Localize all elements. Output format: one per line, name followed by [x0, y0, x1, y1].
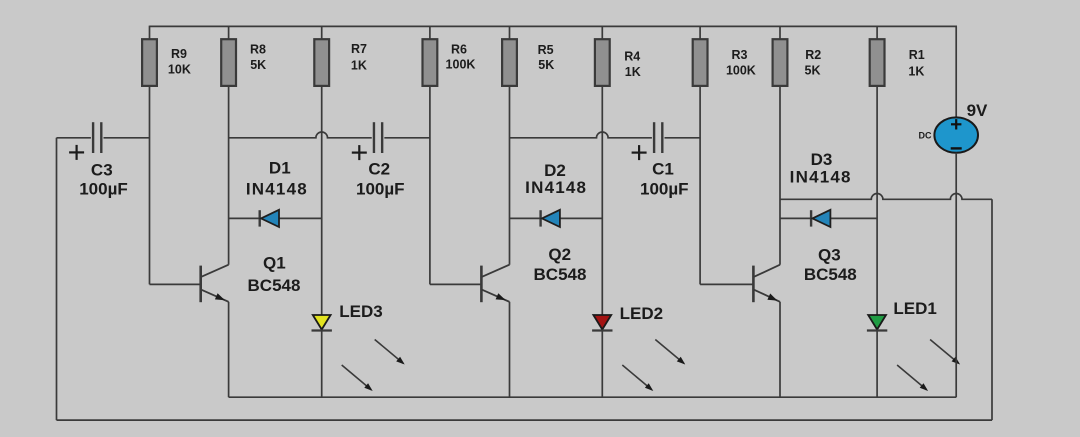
svg-text:Q3: Q3: [818, 246, 841, 265]
resistor R5 (5K): [502, 26, 554, 86]
wire: R1 branch down to LED1: [876, 86, 878, 397]
svg-text:R7: R7: [351, 42, 367, 56]
svg-text:R3: R3: [732, 48, 748, 62]
svg-text:10K: 10K: [168, 62, 191, 76]
wire: right riser down to bottom rail: [991, 199, 993, 420]
svg-text:BC548: BC548: [248, 276, 301, 295]
diode D3 (IN4148): [780, 150, 877, 227]
- terminal mark: [951, 147, 962, 149]
svg-text:Q2: Q2: [548, 245, 571, 264]
resistor R8 (5K): [221, 26, 266, 86]
svg-text:IN4148: IN4148: [790, 168, 852, 187]
svg-text:R9: R9: [171, 47, 187, 61]
light ray arrows of LED2: [655, 340, 683, 364]
transistor Q3 (BC548, NPN): [700, 246, 857, 398]
collector of Q3: [753, 265, 780, 277]
svg-text:100K: 100K: [726, 64, 756, 78]
svg-text:Q1: Q1: [263, 254, 286, 273]
LED LED3: [312, 302, 405, 391]
svg-text:BC548: BC548: [534, 265, 587, 284]
wire: R2 bottom node to right riser (hops over R1 and battery branches): [780, 193, 992, 199]
svg-text:100K: 100K: [446, 57, 476, 71]
resistor R2 (5K): [773, 26, 822, 86]
resistor R4 (1K): [595, 26, 641, 86]
collector of Q1: [201, 265, 229, 277]
svg-text:R5: R5: [538, 43, 554, 57]
resistor R1 (1K): [870, 26, 925, 86]
wire: R5 branch down to Q2 collector: [509, 86, 511, 265]
wire: R4 branch down to LED2: [601, 86, 603, 397]
emitter of Q1: [201, 289, 229, 301]
wire battery negative down: [955, 153, 957, 397]
emitter wire of Q1 down: [228, 302, 230, 397]
emitter of Q3: [753, 289, 780, 301]
transistor Q1 (BC548, NPN): [150, 254, 301, 398]
svg-text:LED3: LED3: [339, 302, 382, 321]
diode D1 (IN4148): [229, 158, 322, 227]
svg-text:R6: R6: [451, 42, 467, 56]
base bar of Q3: [752, 266, 755, 303]
base wire of Q2: [430, 283, 482, 285]
svg-text:IN4148: IN4148: [246, 180, 308, 199]
wire: +9V top bus: [150, 25, 958, 27]
light ray arrows of LED1: [930, 340, 958, 364]
svg-text:100µF: 100µF: [356, 180, 405, 199]
wire: R7 branch down to LED3: [321, 86, 323, 397]
LED LED2: [592, 304, 685, 391]
wire: left riser from C3 down to bottom rail: [56, 138, 58, 420]
wire: R8 branch down to Q1 collector: [228, 86, 230, 265]
svg-text:1K: 1K: [625, 65, 641, 79]
svg-text:R8: R8: [250, 43, 266, 57]
wire: R6 branch down to Q2 base node: [429, 86, 431, 285]
svg-text:5K: 5K: [250, 58, 266, 72]
svg-text:LED2: LED2: [620, 304, 663, 323]
svg-text:100µF: 100µF: [79, 180, 128, 199]
svg-text:C1: C1: [652, 160, 674, 179]
svg-text:C2: C2: [368, 160, 390, 179]
resistor R7 (1K): [314, 26, 367, 86]
svg-text:5K: 5K: [538, 58, 554, 72]
svg-text:D3: D3: [811, 150, 833, 169]
wire: R3 branch down to Q3 base node: [699, 86, 701, 285]
svg-text:1K: 1K: [908, 64, 924, 78]
base bar of Q1: [199, 266, 202, 303]
svg-text:D1: D1: [269, 158, 291, 177]
svg-text:5K: 5K: [805, 64, 821, 78]
base bar of Q2: [480, 266, 483, 303]
wire from left corner to C3: [57, 137, 91, 139]
svg-text:R2: R2: [805, 48, 821, 62]
svg-text:C3: C3: [91, 160, 113, 179]
emitter wire of Q3 down: [779, 302, 781, 397]
wire: bottom rail: [57, 419, 993, 421]
svg-text:R4: R4: [624, 49, 640, 63]
transistor Q2 (BC548, NPN): [430, 245, 587, 397]
wire: R9 branch down to Q1 base node: [149, 86, 151, 285]
svg-text:DC: DC: [919, 130, 932, 140]
capacitor C1 (100µF): [510, 122, 701, 198]
collector of Q2: [481, 265, 509, 277]
svg-text:1K: 1K: [351, 58, 367, 72]
svg-text:R1: R1: [909, 48, 925, 62]
polarity + of C3: [69, 151, 84, 153]
wire: R2 branch down to Q3 collector: [779, 86, 781, 265]
emitter wire of Q2 down: [509, 302, 511, 397]
LED LED1: [867, 299, 960, 391]
wire C3 to R9 branch: [104, 137, 150, 139]
svg-text:9V: 9V: [967, 101, 988, 120]
resistor R9 (10K): [142, 26, 191, 86]
capacitor C2 (100µF): [229, 122, 430, 198]
resistor R6 (100K): [423, 26, 476, 86]
capacitor C3 (100µF): [57, 122, 150, 198]
svg-text:IN4148: IN4148: [525, 178, 587, 197]
polarity + of C1: [632, 152, 647, 154]
polarity + of C2: [352, 152, 367, 154]
emitter of Q2: [481, 289, 509, 301]
battery B1: 9V DC source: [919, 26, 989, 397]
svg-text:100µF: 100µF: [640, 180, 689, 199]
resistor R3 (100K): [693, 26, 756, 86]
diode D2 (IN4148): [510, 161, 603, 227]
wire battery to top bus: [955, 26, 957, 117]
svg-text:BC548: BC548: [804, 265, 857, 284]
+ terminal mark: [951, 123, 961, 125]
base wire of Q1: [150, 283, 201, 285]
svg-text:LED1: LED1: [893, 299, 936, 318]
wire: emitter/LED return bus: [229, 396, 957, 398]
light ray arrows of LED3: [375, 340, 403, 364]
base wire of Q3: [700, 283, 753, 285]
